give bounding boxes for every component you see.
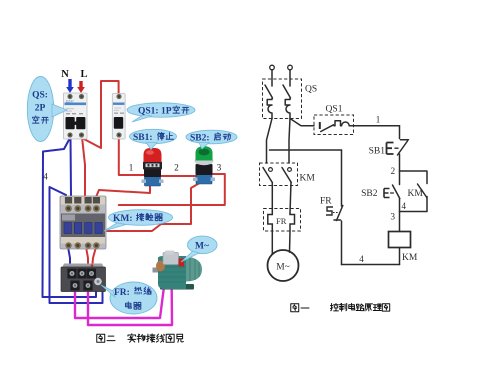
svg-text:L: L xyxy=(80,69,87,80)
svg-text:2: 2 xyxy=(391,166,396,176)
svg-text:SB2:: SB2: xyxy=(190,134,210,144)
svg-text:SB1: SB1 xyxy=(369,147,386,157)
svg-text:3: 3 xyxy=(391,212,396,222)
svg-text:SB2: SB2 xyxy=(361,189,378,199)
svg-text:4: 4 xyxy=(43,172,48,182)
svg-text:FR: FR xyxy=(320,197,332,207)
svg-text:FR: FR xyxy=(276,216,287,226)
svg-text:3: 3 xyxy=(217,163,222,173)
svg-text:QS:: QS: xyxy=(32,91,48,101)
svg-text:4: 4 xyxy=(359,254,364,264)
svg-text:QS1: QS1 xyxy=(326,105,343,115)
svg-text:KM: KM xyxy=(408,189,424,199)
svg-text:1: 1 xyxy=(129,163,134,173)
svg-text:2: 2 xyxy=(174,163,179,173)
svg-text:KM:: KM: xyxy=(113,214,133,224)
svg-text:M~: M~ xyxy=(276,263,290,273)
svg-text:N: N xyxy=(61,69,69,80)
svg-text:QS: QS xyxy=(305,85,317,95)
svg-text:QS1: 1P: QS1: 1P xyxy=(138,107,172,117)
svg-text:1: 1 xyxy=(376,115,381,125)
svg-text:SB1:: SB1: xyxy=(133,133,153,143)
svg-text:DZ47: DZ47 xyxy=(66,99,74,103)
svg-text:KM: KM xyxy=(402,253,418,263)
svg-text:4: 4 xyxy=(402,201,407,211)
svg-text:M~: M~ xyxy=(195,242,209,252)
svg-text:2P: 2P xyxy=(35,104,46,114)
svg-text:FR:: FR: xyxy=(114,288,130,298)
svg-text:KM: KM xyxy=(300,174,316,184)
